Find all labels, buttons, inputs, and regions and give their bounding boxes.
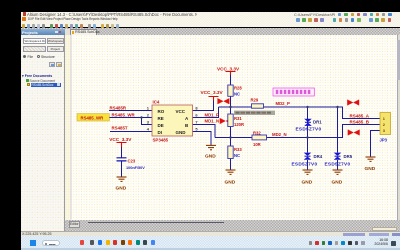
- wire MD2_P run: [219, 107, 381, 119]
- svg-text:2: 2: [147, 113, 150, 118]
- ground under C23: [117, 177, 127, 181]
- svg-text:4: 4: [147, 127, 150, 132]
- workspace combo: [23, 38, 46, 44]
- svg-text:RS485_WR: RS485_WR: [81, 115, 105, 120]
- svg-text:MD1_N: MD1_N: [205, 118, 220, 123]
- differential pair directive bottom right: [348, 130, 360, 136]
- svg-text:8: 8: [195, 106, 198, 111]
- Windows taskbar: [21, 236, 400, 250]
- svg-text:MD1_P: MD1_P: [205, 112, 219, 117]
- svg-text:ESD5Z7V0: ESD5Z7V0: [325, 162, 351, 167]
- node MD2_N / R31-R33 junction: [229, 136, 231, 138]
- ground under JP3: [366, 157, 376, 161]
- wire R33 stubs: [230, 138, 232, 170]
- search pill: [42, 240, 60, 246]
- svg-text:ESD5Z7V0: ESD5Z7V0: [292, 162, 318, 167]
- svg-text:GND: GND: [332, 179, 343, 185]
- svg-text:R31: R31: [234, 116, 242, 121]
- wire DR5 column: [337, 107, 339, 170]
- svg-text:MD2_N: MD2_N: [272, 132, 287, 137]
- svg-text:MD2_P: MD2_P: [276, 101, 290, 106]
- Editor tab: [69, 221, 81, 228]
- svg-text:RS485T: RS485T: [112, 126, 128, 131]
- node RE/DE junction: [140, 116, 142, 118]
- wire RE-DE tie: [142, 118, 153, 125]
- menu bar: [21, 17, 400, 23]
- node MD2_P / DR1 junction: [306, 106, 308, 108]
- TVS diode DR5: [334, 153, 342, 160]
- svg-text:7: 7: [195, 120, 198, 125]
- TVS diode DR1: [304, 119, 312, 126]
- horizontal scrollbar strip: [65, 220, 400, 231]
- svg-text:NC: NC: [234, 153, 240, 158]
- wire R31 stubs: [230, 107, 232, 138]
- wire B pin down to MD2_N run: [193, 125, 216, 138]
- svg-text:10R: 10R: [253, 142, 261, 147]
- svg-text:DR5: DR5: [344, 154, 353, 159]
- node MD2_P / DR5 junction: [336, 106, 338, 108]
- ground at IC pin5: [206, 145, 216, 149]
- svg-text:R28: R28: [234, 86, 242, 91]
- status bar: [21, 231, 400, 237]
- tree: [22, 74, 52, 78]
- Projects panel header: [21, 29, 65, 35]
- svg-text:DI: DI: [158, 130, 163, 135]
- wire DR1 DR4 column: [307, 107, 309, 170]
- document tab: [65, 29, 70, 35]
- svg-text:SP3485: SP3485: [153, 138, 169, 143]
- differential pair directive on MD1 pair: [220, 118, 232, 124]
- window title bar: [21, 12, 400, 17]
- svg-text:RS485_B: RS485_B: [350, 119, 370, 124]
- svg-text:DE: DE: [158, 123, 164, 128]
- start button: [30, 240, 36, 246]
- radios: [23, 55, 26, 58]
- resistor R28: [228, 85, 233, 96]
- wire GND pin: [193, 132, 212, 146]
- clock: [366, 239, 388, 247]
- TVS diode DR4: [304, 153, 312, 160]
- wire RS485T to pin DI: [110, 131, 152, 133]
- IC IC4 (SP3485 transceiver): [152, 105, 193, 136]
- svg-text:VCC_3.3V: VCC_3.3V: [109, 137, 132, 142]
- differential pair directive top right: [347, 100, 359, 106]
- svg-text:6: 6: [195, 113, 198, 118]
- wire A pin up to MD2_P run: [193, 107, 219, 118]
- connector JP3: [380, 113, 391, 135]
- svg-text:GND: GND: [365, 166, 376, 172]
- svg-text:VCC_3.3V: VCC_3.3V: [217, 66, 240, 71]
- resistor R31 termination: [228, 114, 233, 127]
- project combo (hatched): [23, 46, 46, 52]
- node MD2_P / R28-R31 junction: [229, 106, 231, 108]
- selected net label RS485_WR (yellow): [77, 114, 109, 121]
- svg-text:R29: R29: [251, 98, 259, 103]
- svg-text:100nF/50V: 100nF/50V: [126, 166, 145, 170]
- annotation box (pink): [273, 88, 314, 96]
- resistor R33: [228, 146, 233, 159]
- wire RS485R to pin RO: [109, 110, 152, 112]
- svg-text:R33: R33: [234, 147, 242, 152]
- svg-text:IC4: IC4: [153, 100, 160, 105]
- ground under DR4: [303, 170, 313, 174]
- small button right of hscroll: [372, 227, 397, 231]
- capacitor C23: [117, 158, 127, 161]
- dimmed tag near R31: [234, 111, 275, 115]
- wire VCC pin to power: [193, 97, 214, 111]
- small buttons: [49, 62, 55, 67]
- ground under DR5: [333, 170, 343, 174]
- svg-text:RS485_A: RS485_A: [350, 113, 370, 118]
- wire C23: [121, 145, 123, 177]
- svg-text:GND: GND: [176, 130, 187, 135]
- ground under R33: [226, 170, 236, 174]
- svg-text:RO: RO: [158, 109, 165, 114]
- hscroll thumb: [88, 222, 224, 224]
- svg-text:GND: GND: [205, 154, 216, 160]
- schematic canvas: [65, 35, 397, 220]
- svg-text:DR1: DR1: [313, 119, 322, 124]
- toolbar / tab-bar hatched strip: [21, 22, 400, 27]
- wire RS485_WR to pin RE: [108, 117, 152, 119]
- svg-text:DR4: DR4: [314, 154, 323, 159]
- svg-text:VCC: VCC: [176, 109, 186, 114]
- vertical scrollbar: [397, 35, 400, 220]
- svg-text:RE: RE: [158, 116, 164, 121]
- svg-text:RS485_WR: RS485_WR: [112, 113, 136, 118]
- svg-text:RS485R: RS485R: [110, 106, 127, 111]
- svg-text:3: 3: [147, 120, 150, 125]
- svg-text:GND: GND: [302, 179, 313, 185]
- svg-text:GND: GND: [116, 186, 127, 192]
- svg-text:1: 1: [147, 106, 150, 111]
- wire MD2_N run: [215, 125, 380, 138]
- svg-text:VCC_3.3V: VCC_3.3V: [201, 90, 224, 95]
- sheet border: [70, 35, 72, 220]
- no-ERC marker near R28: [218, 98, 230, 104]
- node MD2_N / DR4 junction: [306, 136, 308, 138]
- wire JP3 pin3 to gnd: [371, 131, 381, 157]
- Projects panel body: [21, 35, 65, 231]
- svg-text:GND: GND: [225, 179, 236, 185]
- svg-text:ESD5Z7V0: ESD5Z7V0: [296, 127, 322, 132]
- svg-text:JP3: JP3: [380, 137, 388, 142]
- svg-text:5: 5: [195, 127, 198, 132]
- svg-text:120R: 120R: [234, 122, 244, 127]
- svg-text:C23: C23: [128, 159, 136, 164]
- svg-text:NC: NC: [234, 91, 240, 96]
- wire R28 stub: [230, 72, 232, 108]
